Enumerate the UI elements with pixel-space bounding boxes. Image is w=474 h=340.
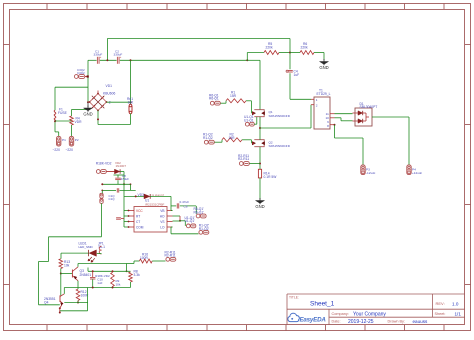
svg-text:Sheet_1: Sheet_1: [310, 301, 335, 308]
svg-text:R1-Q2: R1-Q2: [203, 136, 213, 140]
svg-text:-12vdc: -12vdc: [366, 171, 376, 175]
svg-text:P2: P2: [75, 138, 79, 142]
svg-text:SPA15N60CFD: SPA15N60CFD: [269, 114, 291, 118]
svg-text:eauuss: eauuss: [413, 319, 429, 324]
svg-text:VD1: VD1: [106, 84, 113, 88]
svg-text:VCC: VCC: [136, 209, 143, 213]
svg-text:R2-R11: R2-R11: [238, 157, 249, 161]
svg-text:SPA15N60CFD: SPA15N60CFD: [269, 144, 291, 148]
svg-text:470uF: 470uF: [121, 177, 130, 181]
svg-text:Your Company: Your Company: [353, 311, 386, 317]
svg-text:R18K-VD2: R18K-VD2: [96, 161, 112, 165]
svg-text:~220: ~220: [66, 148, 74, 152]
svg-text:RT: RT: [136, 215, 140, 219]
svg-text:VDR: VDR: [75, 120, 83, 124]
svg-text:10k: 10k: [64, 264, 70, 268]
svg-text:TITLE:: TITLE:: [289, 296, 299, 300]
svg-text:EasyEDA: EasyEDA: [300, 316, 327, 323]
svg-text:1/1: 1/1: [455, 311, 462, 316]
svg-text:Company:: Company:: [332, 312, 349, 316]
svg-text:10k: 10k: [116, 282, 121, 286]
svg-text:+12vdc: +12vdc: [412, 171, 423, 175]
svg-text:U1-Q1': U1-Q1': [185, 219, 196, 223]
svg-text:Date:: Date:: [332, 320, 341, 324]
svg-text:C6: C6: [184, 204, 188, 208]
svg-text:IR21531CPBF: IR21531CPBF: [145, 202, 165, 206]
svg-text:GND: GND: [83, 111, 92, 116]
svg-text:HO: HO: [160, 215, 165, 219]
svg-text:COM: COM: [136, 226, 144, 230]
svg-text:Q4: Q4: [44, 301, 49, 305]
svg-text:REV:: REV:: [436, 301, 445, 306]
svg-text:U1-Q1: U1-Q1: [244, 118, 254, 122]
svg-text:1.0: 1.0: [452, 301, 459, 306]
svg-text:+: +: [120, 55, 122, 59]
svg-text:15R: 15R: [229, 136, 236, 140]
svg-text:SBL3040PT: SBL3040PT: [360, 105, 378, 109]
svg-text:VB: VB: [160, 209, 164, 213]
svg-text:2N5401: 2N5401: [80, 273, 92, 277]
svg-text:1uF: 1uF: [294, 73, 300, 77]
svg-text:FUSE: FUSE: [58, 111, 68, 115]
svg-text:220k: 220k: [266, 46, 274, 50]
svg-text:ETD29_L: ETD29_L: [317, 92, 331, 96]
svg-text:C1Q: C1Q: [109, 197, 116, 201]
svg-text:VS: VS: [160, 220, 164, 224]
svg-text:GND: GND: [255, 204, 264, 209]
svg-text:2019-12-25: 2019-12-25: [348, 319, 374, 325]
svg-text:LO: LO: [160, 226, 165, 230]
svg-text:P1: P1: [62, 138, 66, 142]
svg-text:2: 2: [316, 104, 318, 108]
svg-text:3.3k: 3.3k: [134, 273, 141, 277]
svg-text:CT: CT: [136, 220, 140, 224]
svg-text:Drawn By:: Drawn By:: [388, 320, 406, 324]
svg-text:Sheet:: Sheet:: [435, 312, 446, 316]
svg-text:KBU606: KBU606: [103, 92, 115, 96]
svg-text:GND: GND: [319, 65, 328, 70]
svg-text:~220: ~220: [53, 148, 61, 152]
svg-text:LED_SMD: LED_SMD: [79, 245, 94, 249]
svg-text:1N4007: 1N4007: [116, 164, 127, 168]
svg-text:+: +: [100, 55, 102, 59]
svg-text:1: 1: [316, 98, 318, 102]
svg-text:0.1R 5W: 0.1R 5W: [264, 175, 278, 179]
svg-text:1uF: 1uF: [97, 281, 102, 285]
svg-text:15R: 15R: [230, 94, 237, 98]
svg-text:R6-Q1: R6-Q1: [209, 97, 219, 101]
svg-text:VD3: VD3: [138, 193, 145, 197]
svg-text:220k: 220k: [301, 46, 309, 50]
svg-text:100R: 100R: [140, 256, 149, 260]
svg-text:16K: 16K: [128, 101, 135, 105]
